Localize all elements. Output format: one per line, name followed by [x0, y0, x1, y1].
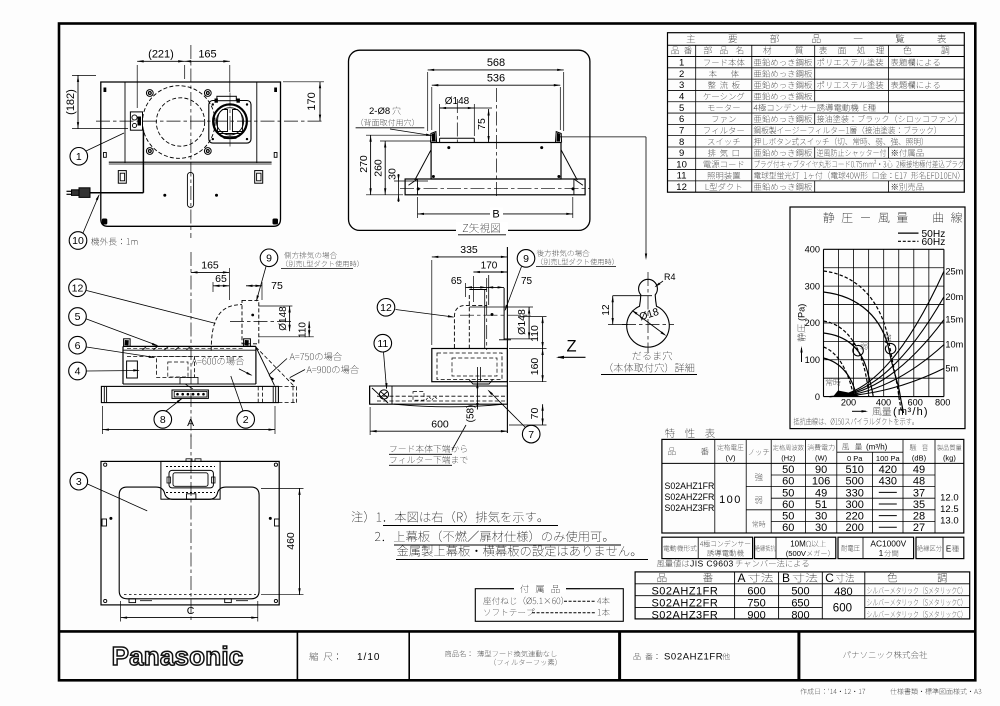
svg-text:30: 30 [387, 168, 399, 180]
bottom view dimension 460 [261, 487, 304, 489]
svg-text:9: 9 [523, 253, 529, 265]
callout 6 [69, 336, 87, 354]
svg-text:800: 800 [935, 398, 950, 408]
svg-text:6: 6 [75, 340, 81, 352]
dimension 165 top view [185, 60, 230, 62]
product name cell [445, 650, 470, 657]
exhaust adapter top flange [217, 96, 236, 100]
svg-text:170: 170 [481, 260, 498, 271]
front view canopy [101, 386, 278, 402]
power cord and plug [90, 192, 143, 194]
corner stoppers [104, 88, 107, 93]
spec table frame [662, 439, 964, 533]
top view shelf line [109, 161, 272, 163]
svg-text:Ø148: Ø148 [445, 96, 470, 107]
svg-text:2-Ø8: 2-Ø8 [369, 106, 390, 117]
svg-text:(W): (W) [815, 454, 828, 463]
side view dome dashed [454, 305, 487, 348]
dimension 75 Z view [474, 107, 492, 109]
svg-text:60: 60 [782, 499, 794, 511]
callout 12 front view [69, 279, 87, 297]
svg-text:200: 200 [846, 522, 864, 534]
dimension 30 [394, 180, 428, 182]
svg-text:430: 430 [879, 476, 897, 488]
side view nose with lamp [391, 386, 393, 404]
side view dimension (58) [476, 382, 478, 410]
svg-text:(dB): (dB) [912, 454, 927, 463]
svg-text:100: 100 [719, 494, 742, 506]
svg-text:3: 3 [679, 80, 684, 91]
svg-text:480: 480 [834, 586, 852, 598]
front view dome curve dashed [211, 305, 242, 351]
svg-text:13.0: 13.0 [940, 516, 959, 527]
exhaust shutter flaps [218, 110, 228, 132]
svg-text:30: 30 [815, 511, 827, 523]
fan inlet dashed circles [143, 86, 216, 159]
svg-text:165: 165 [198, 49, 216, 61]
static pressure vs air flow graph box [790, 207, 965, 429]
svg-text:11: 11 [377, 338, 388, 350]
svg-text:50: 50 [782, 487, 794, 499]
lamp sockets below shelf [118, 171, 126, 184]
side view dimension 335 [431, 260, 433, 345]
callout 9 front view [260, 249, 278, 267]
svg-text:1: 1 [76, 151, 82, 163]
svg-text:E: E [946, 545, 951, 554]
keyhole darum hole detail [627, 279, 670, 347]
svg-text:110: 110 [298, 322, 309, 338]
side view fan scroll dashed [437, 353, 502, 380]
svg-text:510: 510 [846, 464, 864, 476]
Z view caption [456, 222, 508, 235]
svg-text:900: 900 [747, 609, 765, 621]
parts table headers [672, 46, 693, 54]
front view L-duct dashed [242, 300, 259, 343]
svg-text:49: 49 [913, 464, 925, 476]
Z direction arrow [558, 356, 586, 358]
Z view duct centerline [456, 99, 458, 146]
svg-text:8: 8 [679, 137, 684, 148]
svg-text:51: 51 [815, 499, 827, 511]
svg-text:5m: 5m [945, 363, 958, 373]
svg-text:75: 75 [271, 280, 283, 292]
svg-text:10: 10 [72, 235, 84, 247]
svg-text:1/10: 1/10 [357, 652, 380, 663]
callout 1 [86, 133, 124, 151]
hood bottom note [390, 445, 466, 453]
fan performance curves 50Hz solid 60Hz dashed [824, 292, 904, 413]
callout 3 [70, 472, 88, 490]
note line 1 [352, 511, 541, 523]
bottom view filter handle [187, 494, 196, 499]
front view dimension 110 [308, 321, 310, 336]
parts table title text [687, 34, 946, 43]
svg-text:27: 27 [913, 522, 925, 534]
svg-text:270: 270 [358, 155, 370, 173]
bottom feet [102, 219, 108, 225]
svg-text:800: 800 [791, 609, 809, 621]
bottom view switch assembly [161, 461, 220, 499]
spec table notch labels [755, 473, 763, 481]
side exhaust label [284, 252, 337, 259]
bottom view centerline [190, 435, 192, 620]
svg-text:50: 50 [782, 511, 794, 523]
svg-text:60: 60 [782, 522, 794, 534]
callout 9 side view [517, 250, 535, 268]
svg-text:(m³/h): (m³/h) [866, 443, 888, 452]
bottom view side latches [102, 519, 107, 526]
svg-text:S02AHZ2FR: S02AHZ2FR [665, 492, 715, 502]
spec table headers [668, 448, 708, 456]
graph footnote [794, 418, 914, 426]
callout 8 [154, 411, 172, 429]
svg-text:11: 11 [677, 171, 687, 182]
svg-text:70: 70 [529, 408, 541, 420]
svg-text:49: 49 [815, 487, 827, 499]
svg-text:536: 536 [487, 72, 505, 84]
side view vertical ref lines [484, 290, 486, 348]
title block band [59, 630, 975, 633]
Z view body [431, 143, 561, 180]
front view motor box [127, 361, 138, 378]
svg-text:B: B [782, 571, 790, 585]
svg-text:(V): (V) [726, 454, 737, 463]
svg-text:9: 9 [266, 252, 272, 264]
center slot [187, 172, 193, 207]
side view canopy [370, 386, 508, 404]
svg-text:165: 165 [201, 260, 219, 272]
front view centerline [190, 252, 192, 438]
callout 12 side view [377, 299, 395, 317]
svg-text:C: C [187, 605, 195, 617]
svg-text:5: 5 [75, 311, 81, 323]
svg-text:65: 65 [215, 273, 227, 285]
graph y axis title 静圧(Pa) [797, 304, 807, 362]
svg-text:600: 600 [833, 603, 852, 615]
side view dimension 110 [520, 316, 547, 318]
svg-text:30: 30 [815, 522, 827, 534]
svg-text:160: 160 [529, 358, 541, 376]
side view body box [432, 349, 508, 382]
svg-text:(182): (182) [65, 89, 77, 115]
front view rim hatch [142, 346, 147, 350]
dimension 270 [366, 134, 430, 136]
svg-text:75: 75 [521, 276, 533, 287]
svg-text:(Hz): (Hz) [781, 454, 796, 463]
svg-text:48: 48 [913, 476, 925, 488]
svg-text:600: 600 [747, 586, 765, 598]
exhaust shutter circle [213, 104, 247, 138]
side view dimension 170 [472, 276, 474, 302]
curve bundle dark wedge [833, 391, 860, 397]
bottom view bottom tabs [129, 599, 136, 603]
Z view duct stub [439, 138, 441, 142]
side view dimension 160 [509, 348, 547, 350]
svg-text:5: 5 [679, 103, 684, 114]
small dots on front face [163, 194, 166, 197]
svg-text:(kg): (kg) [943, 454, 956, 463]
svg-text:460: 460 [285, 532, 297, 550]
keyhole dimension 12 [612, 296, 614, 325]
svg-text:10: 10 [676, 159, 687, 170]
svg-text:(58): (58) [466, 405, 477, 423]
side view duct centerlines [486, 278, 488, 350]
accessories box 付属品 [475, 589, 623, 622]
svg-text:12: 12 [72, 282, 84, 294]
svg-text:75: 75 [476, 118, 488, 130]
svg-text:25m: 25m [945, 266, 963, 276]
keyhole centerlines [647, 272, 649, 352]
svg-text:S02AHZ2FR: S02AHZ2FR [651, 597, 718, 609]
svg-text:420: 420 [879, 464, 897, 476]
side view dimension 600 [369, 407, 371, 435]
svg-text:S02AHZ1FR: S02AHZ1FR [664, 652, 723, 663]
front view variant diagonals [256, 347, 275, 386]
callout 7 [522, 425, 540, 443]
side view rear duct [469, 289, 487, 291]
svg-text:10M: 10M [790, 540, 806, 549]
callout 5 [69, 308, 87, 326]
svg-text:106: 106 [812, 476, 830, 488]
svg-text:Ø148: Ø148 [278, 306, 289, 331]
svg-text:12: 12 [676, 182, 687, 193]
dimension 536 [431, 87, 433, 130]
dimension Ø148 Z view [439, 104, 441, 136]
side view dimensions 65 75 [465, 283, 467, 297]
svg-text:³/h): ³/h) [908, 406, 929, 418]
svg-text:S02AHZ1FR: S02AHZ1FR [651, 586, 718, 598]
bottom view outer rect [101, 461, 279, 605]
side view wall line [506, 247, 508, 433]
svg-text:330: 330 [846, 487, 864, 499]
front view mounting tabs [124, 339, 131, 347]
cord length label [91, 237, 137, 245]
dimension (221) [136, 65, 138, 108]
Z view diagonal braces [415, 150, 431, 180]
bottom view dimension C [120, 601, 122, 622]
front view dimensions 65 75 [212, 282, 214, 292]
svg-text:500: 500 [846, 476, 864, 488]
fan mounting screws [146, 90, 153, 97]
svg-text:65: 65 [451, 276, 463, 287]
svg-text:(Pa): (Pa) [797, 304, 807, 321]
dimension 568 [427, 72, 429, 131]
svg-text:200: 200 [841, 398, 856, 408]
svg-text:R4: R4 [664, 272, 676, 282]
callout 10 power cord [83, 195, 99, 233]
svg-text:220: 220 [846, 511, 864, 523]
svg-text:AC1000V: AC1000V [870, 539, 906, 549]
svg-text:6: 6 [679, 114, 684, 125]
svg-text:100: 100 [805, 355, 820, 365]
svg-text:(500V: (500V [786, 549, 807, 558]
scale cell 1/10 [309, 652, 338, 661]
keyhole dimension Ø18 [634, 312, 665, 335]
svg-text:110: 110 [529, 325, 541, 342]
svg-text:7: 7 [528, 429, 534, 441]
part number cell [634, 653, 658, 660]
svg-text:JIS C9603: JIS C9603 [690, 559, 734, 569]
svg-text:300: 300 [846, 499, 864, 511]
dimension table A/B/C [635, 572, 970, 619]
bottom view corner screws [104, 463, 107, 466]
Z view small dots [447, 146, 450, 149]
svg-text:400: 400 [876, 398, 891, 408]
side view filter dashed lines [377, 395, 505, 397]
graph title 静圧-風量 曲線 [823, 212, 907, 223]
top view hood body outline [101, 82, 281, 226]
svg-text:2: 2 [243, 414, 249, 426]
svg-text:12.5: 12.5 [940, 504, 959, 515]
svg-text:400: 400 [805, 245, 820, 255]
svg-text:1: 1 [679, 58, 684, 69]
keyhole caption [632, 351, 672, 360]
front view duct extension lines [259, 305, 293, 307]
note line 3 [397, 545, 634, 556]
svg-text:60: 60 [782, 476, 794, 488]
parts list table 主要部品一覧表 [668, 33, 965, 193]
svg-text:0 Pa: 0 Pa [847, 454, 863, 463]
svg-text:300: 300 [805, 281, 820, 291]
top view inner back panel lines [124, 82, 126, 163]
svg-text:90: 90 [815, 464, 827, 476]
svg-text:S02AHZ3FR: S02AHZ3FR [665, 503, 715, 513]
svg-text:750: 750 [747, 597, 765, 609]
top view horizontal centerline [96, 120, 322, 122]
svg-text:Panasonic: Panasonic [112, 641, 244, 671]
side view dimension 70 [509, 424, 547, 426]
note line 2 [375, 531, 606, 543]
svg-text:4: 4 [679, 92, 684, 103]
Z view mounting brackets [431, 132, 437, 143]
Z view base plate [405, 179, 585, 195]
svg-text:7: 7 [679, 125, 684, 136]
callout 4 [69, 362, 87, 380]
graph mode labels [884, 334, 892, 342]
svg-text:0: 0 [815, 392, 820, 402]
top view vertical centerline [190, 45, 192, 238]
exhaust adapter square [209, 101, 251, 144]
svg-text:12: 12 [380, 302, 392, 314]
svg-text:2: 2 [679, 69, 684, 80]
svg-text:100 Pa: 100 Pa [876, 454, 901, 463]
svg-text:568: 568 [487, 57, 505, 69]
dimension 260 [380, 140, 437, 142]
svg-text:12: 12 [601, 304, 612, 316]
graph grid [823, 249, 825, 396]
svg-text:1: 1 [879, 549, 884, 558]
svg-text:20m: 20m [945, 292, 963, 302]
svg-text:260: 260 [373, 159, 385, 177]
front view dimension Ø148 [289, 306, 291, 331]
svg-text:4: 4 [75, 366, 81, 378]
svg-text:C: C [825, 571, 834, 585]
line from bracket to keyhole detail [559, 136, 646, 138]
svg-text:10m: 10m [945, 340, 963, 350]
front view inner dashed details [157, 356, 195, 377]
svg-text:Ø148: Ø148 [516, 309, 528, 335]
rear exhaust label [537, 250, 590, 257]
svg-text:650: 650 [791, 597, 809, 609]
svg-text:170: 170 [306, 92, 318, 110]
svg-text:Z: Z [566, 338, 576, 356]
svg-text:200: 200 [805, 318, 820, 328]
front view switch panel [172, 390, 208, 398]
svg-text:28: 28 [913, 511, 925, 523]
svg-text:12.0: 12.0 [940, 493, 959, 504]
Z view rounded frame [349, 50, 590, 230]
svg-text:35: 35 [913, 499, 925, 511]
motor spec table [662, 537, 753, 558]
callout 2 [237, 411, 255, 429]
svg-text:60Hz: 60Hz [922, 237, 946, 248]
front view variant labels [192, 357, 244, 365]
svg-text:S02AHZ3FR: S02AHZ3FR [651, 609, 718, 621]
front view dimension A [101, 406, 103, 434]
svg-text:S02AHZ1FR: S02AHZ1FR [665, 481, 715, 491]
Z view body centerline [495, 88, 497, 198]
JIS note [657, 560, 689, 567]
bottom view filter panel [119, 487, 259, 599]
dimension 170 top view [283, 81, 324, 83]
svg-text:A: A [737, 571, 745, 585]
svg-text:37: 37 [913, 487, 925, 499]
side view switch bracket dashed [413, 392, 424, 401]
dimension (182) [72, 74, 96, 76]
duct resistance curves 5m-25m [830, 271, 944, 396]
company name cell [843, 651, 927, 659]
svg-text:(221): (221) [148, 49, 174, 61]
power cord bracket [130, 112, 142, 130]
svg-text:B: B [492, 209, 499, 221]
svg-text:A: A [187, 417, 194, 429]
dimension B [417, 197, 419, 218]
callout 11 [374, 334, 392, 352]
svg-text:500: 500 [791, 586, 809, 598]
svg-text:9: 9 [679, 148, 684, 159]
graph x axis title 風量(m3/h) [852, 410, 866, 412]
svg-text:15m: 15m [945, 315, 963, 325]
svg-text:50: 50 [782, 464, 794, 476]
front view dimension 165 [228, 268, 230, 300]
svg-text:600: 600 [431, 419, 449, 431]
svg-text:3: 3 [76, 476, 82, 488]
spec table label 特性表 [665, 428, 715, 437]
footer date and sheet code [800, 688, 981, 694]
svg-text:335: 335 [460, 244, 478, 256]
graph legend [898, 232, 919, 234]
side view dimension Ø148 [469, 306, 533, 308]
svg-text:8: 8 [160, 414, 166, 426]
front view body [123, 345, 256, 347]
